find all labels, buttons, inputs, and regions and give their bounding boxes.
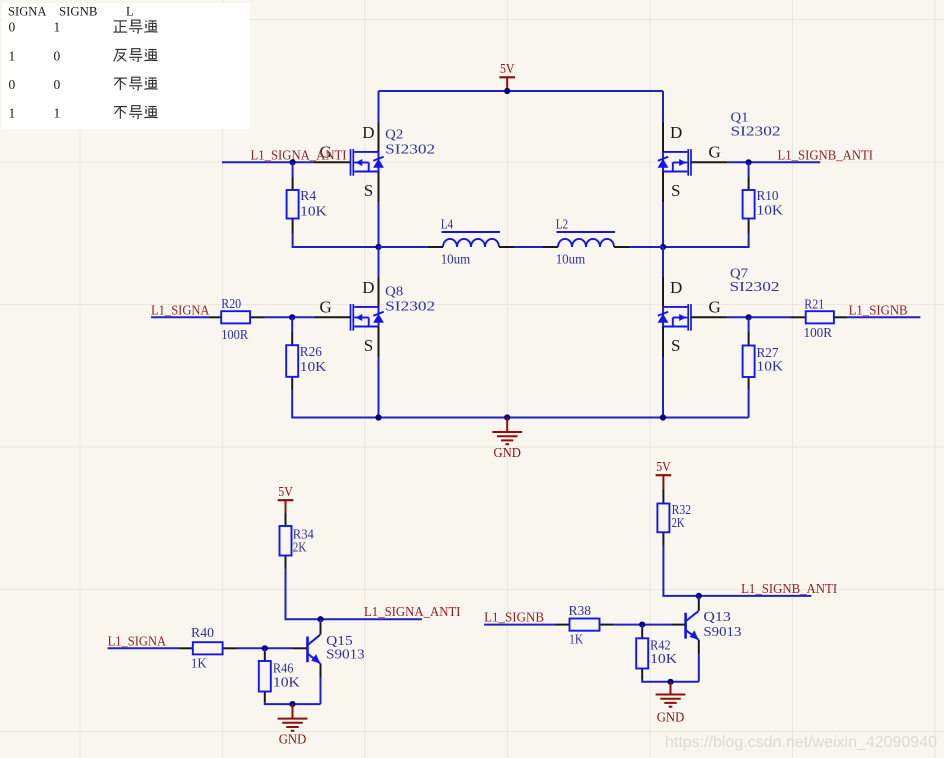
transistor Q2 (SI2302 N-MOSFET) — [351, 122, 384, 202]
wire Q2 source down — [378, 202, 380, 247]
junction Q15 base / R46 — [262, 645, 268, 651]
svg-text:R26: R26 — [300, 345, 322, 360]
junction L1_SIGNA_ANTI / R4 — [290, 159, 296, 165]
svg-text:L: L — [126, 5, 134, 19]
wire R10 top — [748, 162, 750, 177]
svg-text:1K: 1K — [191, 656, 207, 671]
svg-text:S9013: S9013 — [703, 625, 741, 640]
wire R46 bottom rail to Q15 emitter — [265, 702, 321, 704]
wire net L1_SIGNA — [151, 316, 210, 318]
svg-text:R46: R46 — [273, 662, 294, 677]
svg-text:L1_SIGNA: L1_SIGNA — [108, 634, 167, 649]
wire net L1_SIGNB (right) — [848, 316, 921, 318]
svg-text:G: G — [709, 142, 721, 161]
svg-text:0: 0 — [54, 77, 61, 92]
svg-text:SIGNB: SIGNB — [59, 5, 98, 19]
svg-text:R4: R4 — [300, 189, 316, 204]
svg-text:R38: R38 — [569, 604, 592, 619]
wire collector stub — [320, 619, 322, 623]
svg-text:L1_SIGNA_ANTI: L1_SIGNA_ANTI — [364, 605, 461, 620]
truth table panel — [2, 3, 250, 129]
wire R26 top — [291, 317, 293, 332]
table row 3 chinese: 不导通 (no conduct) — [114, 77, 158, 90]
wire between L4 and L2 — [514, 246, 543, 248]
svg-text:5V: 5V — [500, 61, 515, 76]
svg-text:Q2: Q2 — [385, 128, 403, 143]
svg-text:D: D — [362, 278, 374, 297]
ground symbol (bridge) — [492, 418, 522, 445]
wire R38 to Q13 base — [614, 624, 672, 626]
resistor R26 — [286, 332, 298, 390]
wire Q13 emitter down — [698, 654, 700, 682]
wire Q7 drain to mid rail — [662, 247, 664, 277]
svg-text:R21: R21 — [804, 297, 824, 312]
svg-text:10um: 10um — [556, 252, 586, 267]
svg-text:Q13: Q13 — [703, 610, 731, 625]
junction emitter rail / GND — [289, 701, 295, 707]
svg-text:10um: 10um — [441, 252, 471, 267]
svg-text:L1_SIGNB_ANTI: L1_SIGNB_ANTI — [778, 148, 874, 163]
wire Q7 gate to R21 — [728, 316, 791, 318]
junction mid rail left — [375, 244, 381, 250]
inductor L4 — [428, 232, 514, 247]
svg-text:5V: 5V — [278, 484, 293, 499]
wire Q8 gate pin — [314, 316, 351, 318]
resistor R40 — [179, 642, 236, 654]
junction Q15 collector — [317, 616, 323, 622]
svg-text:10K: 10K — [300, 205, 327, 220]
table row 1: 0 1 — [9, 20, 61, 35]
svg-text:10K: 10K — [757, 360, 784, 375]
ground symbol (Q15 driver) — [278, 704, 308, 731]
svg-text:1: 1 — [54, 105, 61, 120]
wire net L1_SIGNA to R40 — [108, 647, 180, 649]
svg-text:G: G — [320, 297, 332, 316]
wire R46 top — [264, 648, 266, 652]
resistor R21 — [791, 311, 848, 323]
wire Q2 drain to 5V rail — [378, 91, 380, 122]
svg-text:10K: 10K — [300, 360, 327, 375]
wire Q7 gate pin — [691, 316, 728, 318]
svg-text:L1_SIGNB: L1_SIGNB — [849, 303, 908, 318]
resistor R46 — [259, 652, 271, 702]
svg-text:0: 0 — [9, 77, 16, 92]
resistor R4 — [287, 177, 299, 233]
svg-text:R10: R10 — [757, 189, 779, 204]
svg-text:G: G — [709, 297, 721, 316]
junction gnd rail / GND — [504, 414, 510, 420]
svg-text:10K: 10K — [273, 676, 300, 691]
transistor Q15 (S9013 NPN) — [293, 623, 321, 678]
inductor L2 — [543, 232, 629, 247]
wire Q1 gate pin — [691, 161, 728, 163]
svg-text:L1_SIGNA: L1_SIGNA — [151, 303, 210, 318]
resistor R32 — [657, 489, 669, 545]
svg-text:SIGNA: SIGNA — [8, 5, 47, 19]
svg-text:D: D — [670, 278, 682, 297]
resistor R27 — [743, 332, 755, 390]
resistor R42 — [636, 629, 648, 680]
wire collector stub — [698, 596, 700, 600]
power +5V symbol (Q13 driver) — [656, 475, 672, 489]
svg-text:L1_SIGNB: L1_SIGNB — [484, 611, 544, 626]
wire net L1_SIGNA_ANTI (Q15 collector) — [321, 618, 423, 620]
wire R20 to Q8 gate — [265, 316, 314, 318]
svg-text:S9013: S9013 — [326, 648, 365, 663]
wire net L1_SIGNB_ANTI from Q1 gate — [728, 161, 821, 163]
resistor R38 — [556, 619, 614, 631]
wire Q15 emitter down — [320, 678, 322, 705]
wire R32 to Q13 collector node — [663, 545, 698, 596]
wire R10 bottom to source rail — [663, 233, 749, 247]
wire Q1 source down — [662, 202, 664, 247]
svg-text:S: S — [364, 336, 373, 355]
svg-text:10K: 10K — [650, 652, 677, 667]
table header SIGNA SIGNB L — [8, 5, 134, 19]
svg-text:0: 0 — [9, 20, 16, 35]
svg-text:GND: GND — [657, 709, 685, 724]
junction Q13 collector — [696, 593, 702, 599]
svg-text:SI2302: SI2302 — [731, 125, 781, 140]
wire R42 bottom rail to Q13 emitter — [642, 680, 699, 682]
svg-text:10K: 10K — [757, 204, 784, 219]
svg-text:1: 1 — [9, 48, 16, 63]
junction 5V rail — [504, 88, 510, 94]
junction emitter rail / GND (Q13) — [667, 679, 673, 685]
svg-text:1K: 1K — [569, 632, 583, 647]
junction L1_SIGNA gate / R26 — [289, 314, 295, 320]
table row 2 chinese: 反导通 (reverse conduct) — [114, 49, 158, 62]
wire Q8 source to gnd rail — [378, 357, 380, 418]
junction Q13 base / R42 — [639, 622, 645, 628]
svg-text:2K: 2K — [293, 540, 307, 555]
table row 4 chinese: 不导通 (no conduct) — [114, 106, 158, 119]
wire R27 top — [748, 317, 750, 332]
svg-text:100R: 100R — [804, 326, 833, 341]
table row 4: 1 1 — [9, 105, 61, 120]
svg-text:Q1: Q1 — [731, 111, 749, 126]
wire R4 top — [292, 162, 294, 177]
junction gnd rail / Q7 source — [660, 414, 666, 420]
svg-text:1: 1 — [9, 105, 16, 120]
wire mid rail left segment — [379, 246, 429, 248]
svg-text:SI2302: SI2302 — [730, 280, 780, 295]
svg-text:S: S — [364, 181, 373, 200]
wire net L1_SIGNB to R38 — [484, 624, 555, 626]
wire Q1 drain to 5V rail — [662, 91, 664, 122]
power +5V symbol (top rail) — [499, 77, 515, 88]
svg-text:https://blog.csdn.net/weixin_4: https://blog.csdn.net/weixin_42090940 — [665, 734, 937, 751]
transistor Q8 (SI2302 N-MOSFET) — [351, 277, 384, 357]
resistor R34 — [280, 512, 292, 568]
wire net L1_SIGNB_ANTI (Q13 collector) — [699, 595, 812, 597]
svg-text:L1_SIGNB_ANTI: L1_SIGNB_ANTI — [741, 582, 837, 597]
svg-text:0: 0 — [54, 48, 61, 63]
wire mid rail right segment — [629, 246, 663, 248]
svg-text:GND: GND — [493, 445, 521, 460]
svg-text:SI2302: SI2302 — [385, 143, 435, 158]
wire net L1_SIGNA_ANTI to Q2 gate — [222, 161, 314, 163]
svg-text:D: D — [362, 123, 374, 142]
svg-text:S: S — [671, 336, 680, 355]
wire Q8 drain to mid rail — [378, 247, 380, 277]
wire R34 to Q15 collector node — [286, 569, 321, 620]
svg-text:1: 1 — [54, 20, 61, 35]
wire 5V top rail — [379, 90, 664, 92]
resistor R10 — [743, 177, 755, 233]
wire R4 bottom to source rail — [293, 233, 379, 247]
wire ground rail — [292, 417, 748, 419]
svg-text:L4: L4 — [441, 217, 454, 232]
ground symbol (Q13 driver) — [656, 682, 686, 707]
svg-text:SI2302: SI2302 — [385, 300, 435, 315]
wire Q2 gate pin — [314, 161, 351, 163]
svg-text:2K: 2K — [672, 516, 685, 531]
svg-text:R20: R20 — [221, 297, 241, 312]
svg-text:100R: 100R — [221, 328, 249, 343]
power +5V symbol (Q15 driver) — [278, 500, 294, 512]
svg-text:S: S — [671, 181, 680, 200]
svg-text:GND: GND — [279, 732, 307, 747]
svg-text:D: D — [670, 123, 682, 142]
wire R40 to Q15 base — [237, 647, 294, 649]
resistor R20 — [210, 311, 265, 323]
junction Q7 gate / R27 — [746, 314, 752, 320]
transistor Q7 (SI2302 N-MOSFET) — [658, 277, 691, 357]
transistor Q13 (S9013 NPN) — [671, 599, 699, 654]
wire R26 bottom to gnd rail — [292, 390, 378, 418]
svg-text:L1_SIGNA_ANTI: L1_SIGNA_ANTI — [251, 148, 347, 163]
junction mid rail right — [660, 244, 666, 250]
junction L1_SIGNB_ANTI / R10 — [746, 159, 752, 165]
table row 1 chinese: 正导通 (forward conduct) — [113, 20, 157, 33]
svg-text:R40: R40 — [191, 626, 214, 641]
junction gnd rail / Q8 source — [375, 414, 381, 420]
table row 2: 1 0 — [9, 48, 61, 63]
wire R42 top — [641, 625, 643, 629]
svg-text:Q8: Q8 — [385, 284, 403, 299]
svg-text:5V: 5V — [656, 459, 671, 474]
svg-text:L2: L2 — [556, 217, 569, 232]
wire Q7 source to gnd rail — [662, 357, 664, 418]
table row 3: 0 0 — [9, 77, 61, 92]
wire R27 bottom to gnd rail — [748, 390, 750, 418]
transistor Q1 (SI2302 N-MOSFET) — [658, 122, 691, 202]
